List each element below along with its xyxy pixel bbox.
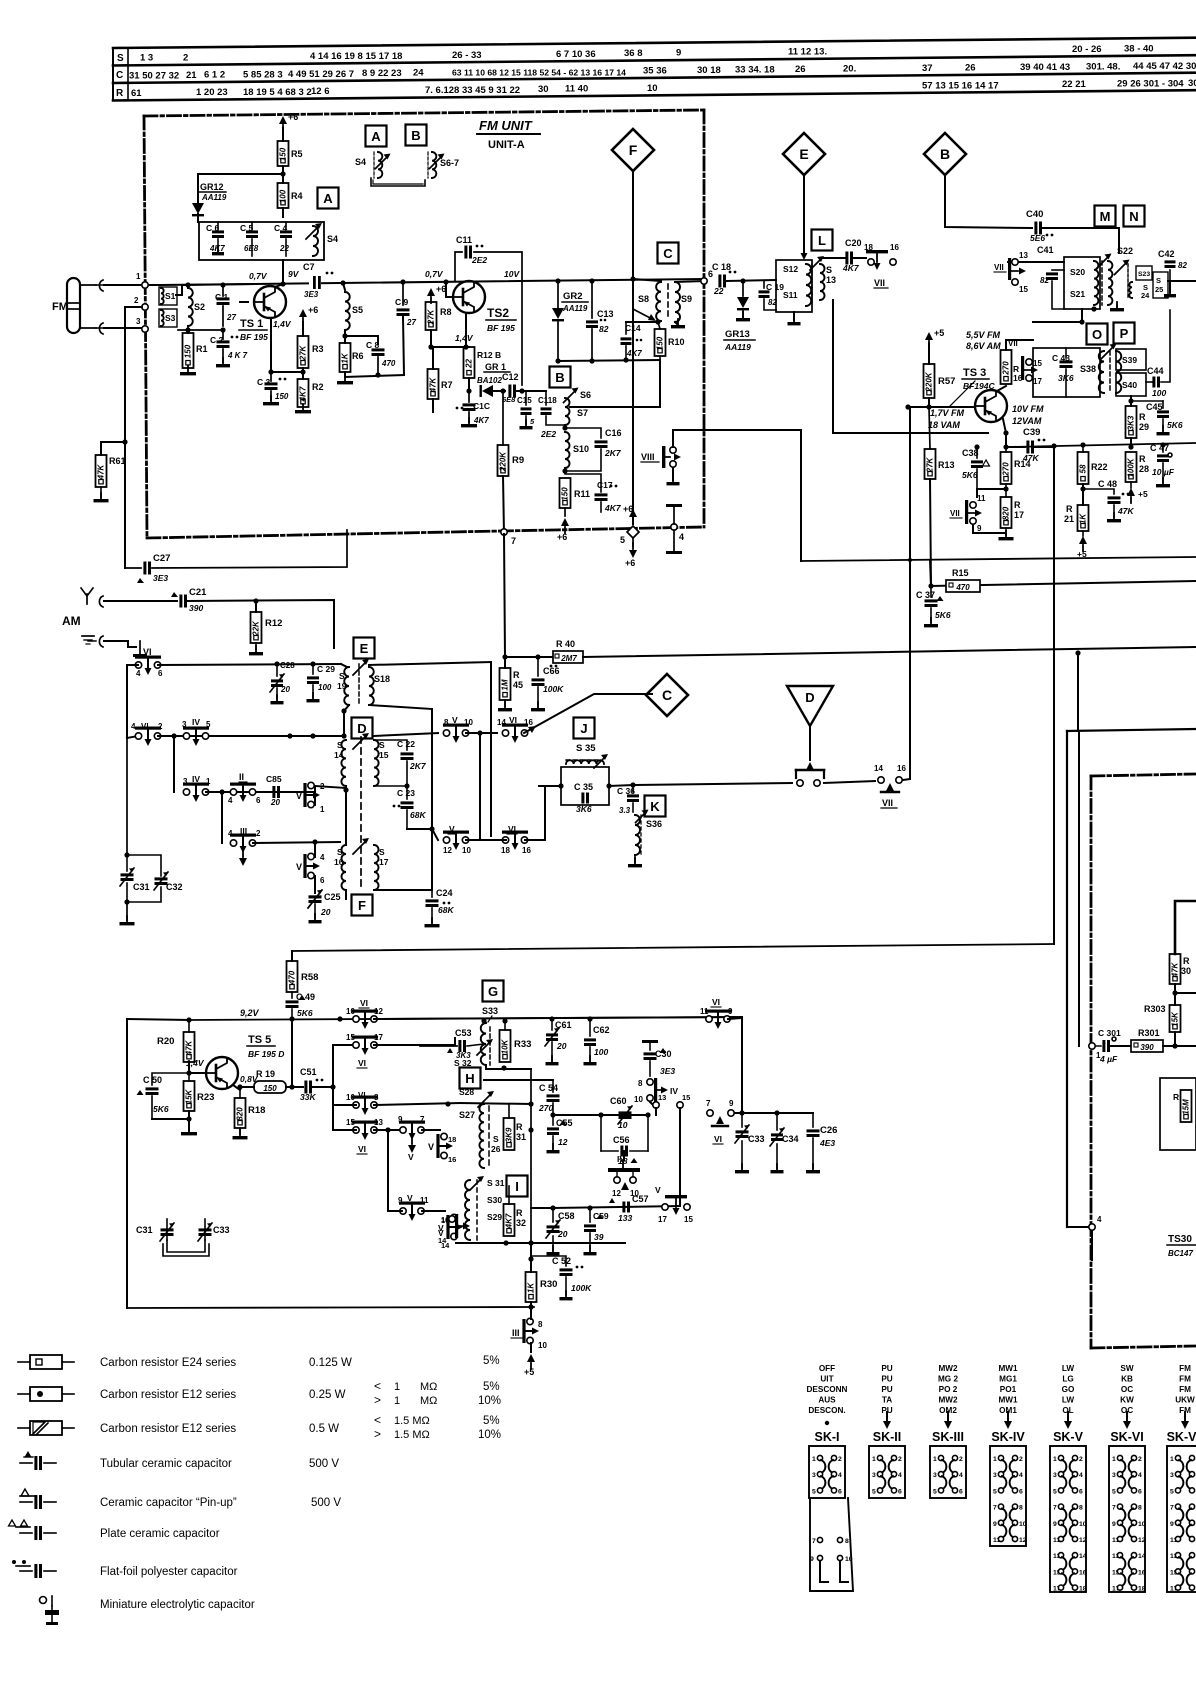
- R20 to base: [189, 1062, 205, 1073]
- node rail S5: [340, 280, 345, 285]
- main FM rail: [160, 279, 704, 285]
- svg-text:C 50: C 50: [143, 1075, 162, 1085]
- table R row numbers: [196, 87, 228, 98]
- svg-text:S4: S4: [327, 234, 338, 244]
- ground C28: [271, 695, 284, 704]
- svg-text:82: 82: [1178, 261, 1187, 270]
- coil S1: [159, 287, 177, 305]
- svg-text:R22: R22: [1091, 462, 1108, 472]
- node4 down: [1091, 1231, 1093, 1260]
- am rail1 to S19: [341, 664, 347, 667]
- svg-text:4E3: 4E3: [819, 1138, 835, 1148]
- wire pin3: [104, 327, 145, 329]
- SK-IV box: [990, 1446, 1027, 1546]
- row1130 left: [333, 1129, 356, 1131]
- vert x388: [387, 1130, 389, 1211]
- svg-text:KW: KW: [1120, 1396, 1134, 1405]
- c51 to node: [313, 1086, 333, 1088]
- svg-text:AA119: AA119: [562, 304, 588, 313]
- FM unit box bottom border: [147, 527, 704, 538]
- TS30 label: [1167, 1234, 1196, 1258]
- resistor R61: [96, 455, 126, 487]
- svg-text:25: 25: [1155, 285, 1163, 294]
- svg-text:C51: C51: [300, 1067, 317, 1077]
- svg-text:S: S: [337, 847, 343, 857]
- svg-text:47K: 47K: [97, 463, 106, 480]
- svg-text:C 2: C 2: [210, 335, 224, 345]
- svg-text:SK-V: SK-V: [1053, 1430, 1084, 1444]
- svg-text:100: 100: [279, 189, 288, 203]
- capacitor C58: [546, 1208, 575, 1250]
- node r23 bottom: [186, 1116, 191, 1121]
- svg-text:R14: R14: [1014, 459, 1031, 469]
- capacitor C42: [1158, 249, 1187, 281]
- svg-text:C 1: C 1: [215, 292, 229, 302]
- capacitor C23: [393, 786, 427, 829]
- row1045 right: [374, 1044, 455, 1046]
- switch 3IV1: [183, 774, 211, 802]
- svg-text:4: 4: [838, 1472, 842, 1479]
- vert 174 to row3: [173, 736, 175, 792]
- table C row numbers: [643, 65, 667, 76]
- resistor R17: [1001, 484, 1025, 528]
- svg-text:SW: SW: [1120, 1364, 1133, 1373]
- R5 top lead: [282, 128, 284, 141]
- svg-text:100K: 100K: [543, 684, 564, 694]
- svg-text:8: 8: [1019, 1505, 1023, 1512]
- node tie2: [528, 1240, 533, 1245]
- bottom tie wire: [345, 375, 404, 377]
- svg-text:C1C: C1C: [473, 401, 490, 411]
- node x553 low: [550, 1205, 555, 1210]
- svg-text:11: 11: [977, 494, 986, 503]
- svg-text:S36: S36: [646, 819, 662, 829]
- svg-text:18: 18: [1079, 1586, 1087, 1593]
- table S row numbers: [788, 47, 827, 58]
- svg-text:B: B: [940, 146, 950, 162]
- svg-text:11 12 13.: 11 12 13.: [788, 47, 827, 58]
- bus to row1105: [460, 1103, 531, 1104]
- node S21 bottom: [1079, 306, 1096, 324]
- capacitor C17: [565, 474, 622, 513]
- R8 emitter tie: [431, 346, 469, 348]
- connector pin 3 arc: [96, 323, 103, 334]
- svg-text:+6: +6: [288, 112, 298, 122]
- svg-text:C41: C41: [1037, 245, 1054, 255]
- svg-text:C16: C16: [605, 428, 622, 438]
- node r33 top: [502, 1018, 507, 1023]
- SK-VI band labels: [1120, 1364, 1134, 1415]
- svg-text:4: 4: [136, 669, 141, 678]
- voltage 1,7V FM: [928, 408, 965, 430]
- svg-text:S20: S20: [1070, 267, 1085, 277]
- svg-text:47K: 47K: [1117, 506, 1134, 516]
- table C row numbers: [129, 70, 179, 81]
- svg-text:9: 9: [398, 1115, 403, 1124]
- c49 to c51 node: [291, 1023, 293, 1087]
- rail733 a: [374, 733, 438, 736]
- svg-text:0,7V: 0,7V: [425, 269, 444, 279]
- svg-text:16: 16: [448, 1155, 456, 1164]
- ground R61: [94, 487, 109, 502]
- node 7 det: [706, 1099, 713, 1116]
- ground C26: [806, 1164, 820, 1173]
- SK-VII arrow: [1181, 1412, 1189, 1429]
- svg-text:220K: 220K: [925, 371, 934, 392]
- capacitor C18: [712, 262, 736, 296]
- S21 bottom drop: [1033, 309, 1082, 322]
- svg-text:14: 14: [1138, 1553, 1146, 1560]
- svg-text:8: 8: [374, 1093, 379, 1102]
- svg-text:2: 2: [1079, 1456, 1083, 1463]
- C50-R23 tie: [152, 1118, 189, 1120]
- switch VI ts5b: [346, 1033, 383, 1068]
- node c51 out: [330, 1084, 335, 1089]
- capacitor C3: [257, 372, 289, 401]
- diode GR13: [724, 281, 755, 352]
- svg-text:3K6: 3K6: [576, 804, 592, 814]
- svg-text:S22: S22: [1117, 246, 1133, 256]
- ground C2: [216, 358, 230, 367]
- c30 sw to ring13: [650, 1102, 656, 1108]
- svg-text:17: 17: [374, 1033, 383, 1042]
- resistor R32: [504, 1186, 527, 1236]
- ground C58: [547, 1246, 560, 1255]
- transformer S38-S39 coils: [1099, 344, 1122, 394]
- ground C15: [520, 420, 533, 429]
- svg-text:VI: VI: [714, 1134, 722, 1144]
- node C12 left: [500, 388, 505, 393]
- switch VIII: [641, 446, 681, 468]
- svg-text:29 26 301 - 304: 29 26 301 - 304: [1117, 78, 1184, 89]
- bus to lower rail: [531, 1207, 553, 1209]
- coil S10: [565, 432, 589, 468]
- switch VI y840: [501, 824, 531, 855]
- svg-text:R3: R3: [312, 344, 324, 354]
- S9 bottom: [675, 322, 678, 325]
- svg-text:22: 22: [713, 286, 724, 296]
- S14-S16 link: [345, 786, 347, 845]
- resistor R19: [254, 1069, 286, 1093]
- svg-text:Carbon resistor E24 series: Carbon resistor E24 series: [100, 1357, 236, 1369]
- svg-text:C 5: C 5: [240, 223, 254, 233]
- transistor TS1: [254, 286, 286, 318]
- table line: [113, 90, 1196, 100]
- svg-text:6: 6: [838, 1488, 842, 1495]
- svg-text:TS 5: TS 5: [248, 1034, 271, 1046]
- svg-text:R20: R20: [157, 1036, 174, 1047]
- node GR1: [466, 388, 471, 393]
- ground R45: [498, 700, 512, 711]
- node rail-C1: [220, 282, 225, 287]
- svg-text:O: O: [1092, 327, 1102, 342]
- svg-text:3E3: 3E3: [304, 290, 319, 299]
- D switch: [796, 762, 824, 786]
- C21 to right: [188, 600, 334, 648]
- resistor R7: [428, 369, 453, 399]
- vert x222: [221, 792, 223, 843]
- svg-text:+5: +5: [934, 328, 944, 338]
- svg-text:MW1: MW1: [998, 1396, 1018, 1405]
- svg-text:C33: C33: [748, 1134, 765, 1144]
- legend flatfoil cap: [12, 1560, 238, 1578]
- svg-text:5K6: 5K6: [1167, 420, 1183, 430]
- node x432 y829: [429, 826, 434, 831]
- node rail C9: [400, 279, 405, 284]
- node C38 top: [974, 444, 1008, 449]
- voltage 1,4V ts5: [186, 1058, 205, 1068]
- TS1 label: [239, 318, 268, 342]
- C56 loop: [601, 1115, 648, 1166]
- svg-text:R: R: [513, 670, 520, 680]
- svg-text:39 40 41 43: 39 40 41 43: [1020, 62, 1070, 73]
- voltage 0,8V: [240, 1074, 259, 1084]
- GR12 branch wire: [198, 174, 283, 203]
- svg-text:8: 8: [845, 1538, 849, 1545]
- capacitor C25b: [308, 890, 341, 918]
- svg-text:DESCONN: DESCONN: [807, 1385, 848, 1394]
- svg-text:100K: 100K: [1127, 457, 1136, 477]
- ts5 rail: [189, 1017, 742, 1020]
- switch VII r16: [1008, 339, 1042, 386]
- svg-text:R9: R9: [512, 455, 524, 466]
- svg-text:GR 1: GR 1: [485, 362, 506, 372]
- svg-text:18 19 5 4 68 3 2: 18 19 5 4 68 3 2: [243, 87, 312, 98]
- svg-text:7: 7: [1170, 1505, 1174, 1512]
- svg-text:TS 3: TS 3: [963, 367, 986, 379]
- capacitor C66: [532, 657, 565, 706]
- svg-text:16: 16: [897, 764, 906, 773]
- svg-text:1K: 1K: [341, 352, 350, 363]
- boxed letter E: [354, 638, 375, 659]
- S35 coil box: [561, 754, 609, 805]
- svg-text:BF 195: BF 195: [240, 332, 268, 342]
- svg-text:C: C: [116, 70, 123, 81]
- varicap C31 C32: [120, 738, 183, 905]
- svg-text:S6-7: S6-7: [440, 158, 459, 168]
- svg-text:12: 12: [1138, 1537, 1146, 1544]
- ground C47: [1156, 478, 1170, 487]
- svg-text:S2: S2: [194, 302, 205, 312]
- GR1 label: [477, 362, 510, 385]
- svg-text:C28: C28: [280, 661, 295, 670]
- svg-text:30 18: 30 18: [697, 65, 721, 76]
- am rail2: [158, 735, 344, 737]
- C14 top wire: [626, 321, 658, 323]
- C35 left wire: [539, 785, 561, 787]
- legend lt1: [374, 1379, 500, 1393]
- svg-text:33 34. 18: 33 34. 18: [735, 65, 775, 76]
- TS1 emitter down: [270, 318, 272, 372]
- svg-text:C 43: C 43: [1052, 353, 1070, 363]
- svg-text:500 V: 500 V: [309, 1458, 339, 1470]
- svg-text:16: 16: [441, 1216, 449, 1225]
- switch VI ts5a: [346, 998, 383, 1029]
- node S8 bottom: [655, 319, 660, 324]
- svg-text:7: 7: [993, 1505, 997, 1512]
- capacitor C2: [210, 330, 248, 362]
- svg-text:4: 4: [131, 722, 136, 731]
- capacitor C53: [420, 1028, 484, 1060]
- S5 drop: [343, 283, 345, 290]
- svg-text:4: 4: [1019, 1472, 1023, 1479]
- svg-text:C 48: C 48: [1098, 479, 1117, 489]
- svg-text:L: L: [818, 233, 826, 248]
- R40 wire left: [505, 656, 553, 658]
- svg-text:BF 195: BF 195: [487, 323, 515, 333]
- output box left: [1066, 731, 1068, 1227]
- R9 to node 7: [503, 476, 504, 534]
- svg-text:1: 1: [872, 1456, 876, 1463]
- svg-text:4 K 7: 4 K 7: [227, 351, 248, 360]
- resistor R28: [1126, 452, 1150, 482]
- SK-VI box: [1109, 1446, 1146, 1593]
- legend resistor E12a: [18, 1387, 346, 1401]
- svg-text:5K6: 5K6: [962, 470, 978, 480]
- svg-text:1,4V: 1,4V: [455, 333, 474, 343]
- R10 bottom path: [570, 360, 660, 407]
- S28 label: [459, 1087, 474, 1097]
- svg-text:BC147: BC147: [1168, 1249, 1193, 1258]
- svg-text:S: S: [337, 740, 343, 750]
- svg-text:C85: C85: [266, 774, 282, 784]
- VIII bottom: [672, 468, 674, 480]
- resistor R31: [504, 1104, 527, 1150]
- svg-text:58: 58: [1079, 464, 1088, 473]
- svg-text:82: 82: [599, 324, 609, 334]
- row1105 left: [333, 1104, 356, 1106]
- svg-text:V: V: [452, 715, 458, 725]
- svg-text:BF194C: BF194C: [963, 381, 996, 391]
- svg-text:9: 9: [810, 1556, 814, 1563]
- svg-text:5: 5: [1112, 1488, 1116, 1495]
- svg-text:8: 8: [1138, 1505, 1142, 1512]
- svg-text:3: 3: [136, 317, 141, 326]
- TS2 label: [486, 306, 516, 333]
- svg-text:27: 27: [226, 313, 236, 322]
- node S40 bottom: [1128, 398, 1133, 403]
- node C66 tap: [535, 654, 540, 659]
- S19 join down: [343, 711, 345, 736]
- table S row numbers: [556, 49, 596, 60]
- svg-text:S7: S7: [577, 408, 588, 418]
- svg-text:R: R: [116, 88, 124, 99]
- FM unit box right border: [703, 110, 706, 527]
- capacitor C16: [565, 428, 622, 471]
- svg-text:36 8: 36 8: [624, 48, 643, 59]
- node bus1: [528, 1101, 533, 1106]
- SK-I lower box: [810, 1498, 853, 1591]
- trimmer bracket: [371, 178, 425, 186]
- capacitor C35: [574, 782, 593, 814]
- R45 leads: [504, 657, 506, 668]
- resistor R6: [340, 343, 364, 372]
- svg-text:31: 31: [516, 1132, 526, 1142]
- resistor R18: [235, 1087, 266, 1128]
- legend pinup cap: [20, 1489, 341, 1509]
- svg-text:6 1 2: 6 1 2: [204, 70, 225, 81]
- capacitor C47: [1150, 443, 1175, 482]
- svg-text:2: 2: [183, 52, 188, 63]
- svg-text:5,5V FM: 5,5V FM: [966, 330, 1001, 340]
- capacitor C11: [456, 235, 487, 265]
- R57 top lead: [928, 344, 930, 364]
- C42 lead: [1169, 281, 1171, 292]
- svg-text:S39: S39: [1122, 355, 1137, 365]
- svg-text:20: 20: [270, 798, 280, 807]
- r23 gnd lead: [188, 1111, 190, 1130]
- node 15: [677, 1093, 691, 1108]
- svg-text:B: B: [411, 128, 420, 143]
- svg-text:S38: S38: [1080, 364, 1096, 374]
- capacitor C29: [307, 664, 335, 697]
- R30 to bottom wire: [530, 1302, 532, 1307]
- svg-text:R33: R33: [514, 1039, 531, 1050]
- svg-text:C42: C42: [1158, 249, 1175, 259]
- svg-text:16: 16: [1079, 1569, 1087, 1576]
- boxed letter B mid: [550, 367, 571, 388]
- svg-text:3K3: 3K3: [1127, 415, 1136, 430]
- svg-text:133: 133: [618, 1213, 632, 1223]
- svg-text:C118: C118: [538, 396, 557, 405]
- v1 link: [314, 786, 316, 805]
- svg-text:16: 16: [524, 718, 533, 727]
- row1045 left: [333, 1044, 356, 1046]
- svg-text:5K6: 5K6: [297, 1008, 313, 1018]
- svg-text:C 23: C 23: [397, 788, 415, 798]
- svg-text:9: 9: [676, 48, 681, 59]
- svg-text:S: S: [493, 1134, 499, 1144]
- node ts5 base: [186, 1070, 191, 1075]
- ts5 rail right: [374, 1017, 742, 1019]
- svg-text:150: 150: [279, 147, 288, 161]
- SK-IV arrow: [1004, 1412, 1012, 1429]
- svg-text:68K: 68K: [410, 810, 426, 820]
- table S row numbers: [183, 52, 188, 63]
- svg-text:13: 13: [826, 275, 836, 285]
- boxed letter P: [1114, 323, 1135, 344]
- svg-text:B: B: [555, 370, 564, 385]
- R3 top lead: [302, 322, 304, 336]
- ground R6: [337, 375, 353, 384]
- switch IV vert det: [634, 1078, 678, 1104]
- x680 vert: [679, 1108, 681, 1206]
- svg-text:V: V: [408, 1152, 414, 1162]
- boxed letter K: [645, 796, 666, 817]
- svg-text:15: 15: [346, 1033, 355, 1042]
- node c61: [549, 1016, 554, 1021]
- svg-text:R: R: [1066, 504, 1073, 514]
- svg-text:1: 1: [812, 1456, 816, 1463]
- resistor R40: [553, 639, 583, 663]
- AM wire to C21: [104, 600, 177, 602]
- svg-text:R58: R58: [301, 972, 318, 983]
- table R row numbers: [243, 87, 312, 98]
- resistor R10: [655, 322, 685, 360]
- svg-text:S21: S21: [1070, 289, 1085, 299]
- table S row numbers: [624, 48, 643, 59]
- R4 to tank box: [282, 208, 284, 217]
- table line: [113, 38, 1196, 48]
- svg-text:16: 16: [334, 857, 344, 867]
- svg-text:R8: R8: [440, 307, 452, 317]
- ground S12: [788, 316, 801, 325]
- table row label C: [116, 70, 123, 81]
- svg-text:3E3: 3E3: [153, 573, 168, 583]
- node GR2 bottom: [555, 358, 594, 363]
- svg-text:R13: R13: [938, 460, 955, 470]
- legend resistor E24: [18, 1355, 500, 1369]
